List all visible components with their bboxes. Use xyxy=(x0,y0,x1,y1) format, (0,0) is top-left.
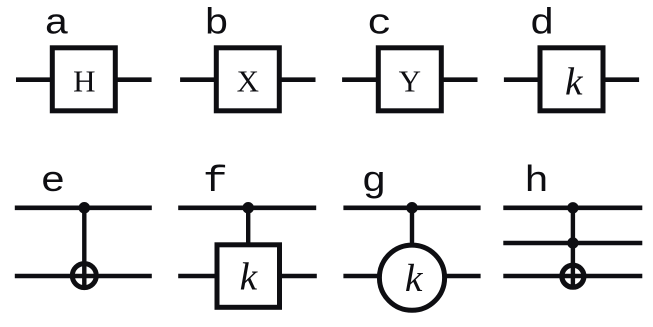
svg-text:f: f xyxy=(203,161,228,202)
gate box Y xyxy=(378,48,441,111)
svg-text:d: d xyxy=(530,4,555,45)
gate box H xyxy=(52,48,115,111)
ctrl-k f target wire right xyxy=(282,274,317,279)
wire gate d xyxy=(504,77,639,82)
Toffoli h wire 3 xyxy=(503,274,642,279)
svg-text:a: a xyxy=(44,4,69,45)
ctrl-k g target wire left xyxy=(343,274,379,279)
wire gate b xyxy=(180,77,315,82)
svg-text:X: X xyxy=(237,63,259,98)
wire gate c xyxy=(342,77,477,82)
ctrl-k g vertical connector xyxy=(410,208,414,247)
ctrl-k g target wire right xyxy=(444,274,480,279)
ctrl-k f control dot xyxy=(242,202,254,214)
ctrl-k f control wire xyxy=(178,206,316,211)
svg-text:k: k xyxy=(240,255,259,299)
svg-text:h: h xyxy=(524,161,549,202)
CNOT e vertical connector xyxy=(82,208,86,288)
svg-text:k: k xyxy=(565,59,584,103)
CNOT e control wire xyxy=(15,206,152,211)
Toffoli h wire 2 xyxy=(503,241,642,246)
svg-text:Y: Y xyxy=(399,63,421,98)
ctrl-k f target wire left xyxy=(178,274,214,279)
wire gate a xyxy=(16,77,152,82)
CNOT e target circle xyxy=(72,264,96,288)
ctrl-k f vertical connector xyxy=(246,208,250,245)
svg-text:c: c xyxy=(367,4,392,45)
svg-text:e: e xyxy=(40,161,65,202)
ctrl-k g control dot xyxy=(406,202,418,214)
svg-text:H: H xyxy=(73,63,95,98)
svg-text:b: b xyxy=(204,4,229,45)
CNOT e control dot xyxy=(79,202,91,214)
gate box k xyxy=(540,48,603,111)
gate box X xyxy=(216,48,279,111)
ctrl-k g gate circle xyxy=(379,245,444,310)
CNOT e target wire xyxy=(15,274,152,279)
Toffoli h wire 1 xyxy=(503,206,642,211)
svg-text:g: g xyxy=(361,161,386,202)
Toffoli h target circle xyxy=(562,265,584,287)
Toffoli h control dot 2 xyxy=(567,237,578,248)
ctrl-k g control wire xyxy=(343,206,480,211)
Toffoli h control dot 1 xyxy=(567,202,578,213)
Toffoli h vertical connector xyxy=(571,208,575,287)
svg-text:k: k xyxy=(405,256,424,300)
ctrl-k f gate box xyxy=(217,245,280,307)
